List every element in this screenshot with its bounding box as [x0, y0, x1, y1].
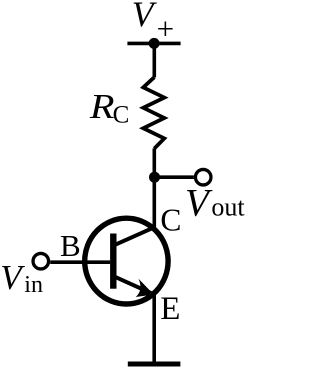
svg-text:+: +	[157, 11, 174, 46]
svg-text:C: C	[160, 203, 181, 238]
svg-text:E: E	[160, 291, 180, 327]
svg-text:B: B	[60, 228, 81, 263]
svg-text:R: R	[89, 88, 115, 127]
svg-text:V: V	[185, 181, 213, 224]
svg-text:out: out	[211, 192, 245, 221]
svg-text:V: V	[0, 258, 25, 297]
svg-text:C: C	[113, 102, 130, 129]
svg-text:in: in	[24, 272, 43, 298]
